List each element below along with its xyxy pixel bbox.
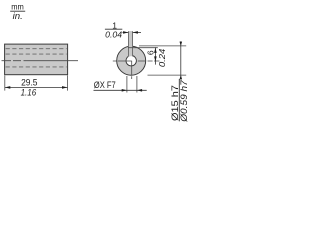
svg-text:mm: mm bbox=[11, 2, 24, 12]
dimension 1 / 0.04 keyway width bbox=[105, 20, 141, 39]
axis centerline bbox=[2, 60, 79, 62]
end view: outer circle bbox=[113, 31, 160, 79]
svg-text:1.16: 1.16 bbox=[21, 88, 37, 98]
side view cylinder body bbox=[2, 44, 79, 75]
bore bbox=[126, 56, 136, 66]
restore bore interior bbox=[127, 56, 136, 65]
dimension OX F7 bore bbox=[94, 76, 147, 93]
vertical centerline bbox=[131, 61, 133, 79]
dimension 29.5 / 1.16 bbox=[5, 75, 68, 97]
svg-text:0.04: 0.04 bbox=[105, 30, 122, 40]
dimension O15 h7 / O0.59 h7 outer diameter bbox=[139, 41, 189, 123]
svg-text:Ø0.59 h7: Ø0.59 h7 bbox=[179, 79, 189, 123]
svg-text:6: 6 bbox=[145, 50, 155, 55]
hidden line bore bottom bbox=[6, 66, 67, 68]
dimension 6 / 0.24 keyway height bbox=[145, 47, 167, 67]
svg-text:ØX F7: ØX F7 bbox=[94, 80, 116, 90]
svg-text:29.5: 29.5 bbox=[21, 77, 37, 87]
slot band bbox=[128, 31, 133, 58]
svg-text:in.: in. bbox=[13, 11, 23, 21]
hidden line keyway top bbox=[6, 48, 67, 50]
keyway top edge line bbox=[128, 47, 158, 49]
hidden line bore top bbox=[6, 53, 67, 55]
horizontal centerline bbox=[113, 60, 160, 62]
svg-text:0.24: 0.24 bbox=[157, 48, 167, 67]
units legend mm over in bbox=[10, 2, 25, 22]
